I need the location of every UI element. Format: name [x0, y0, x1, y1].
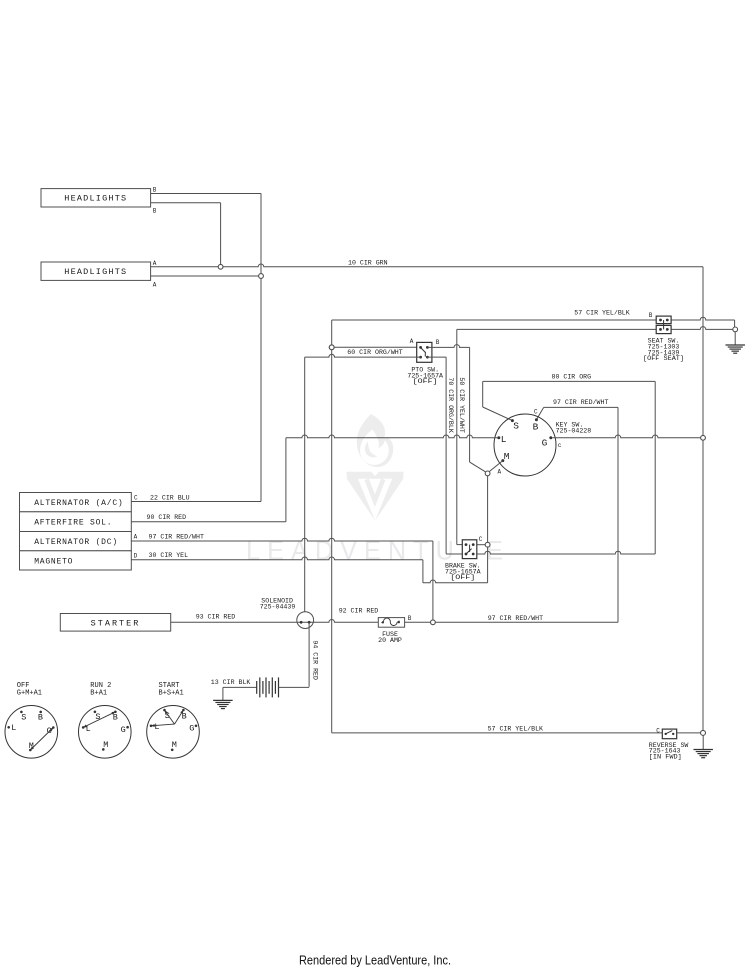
svg-text:B: B	[153, 208, 157, 215]
brake pins	[465, 543, 468, 546]
wire PTO B out, hop over x456.8, to corner x469.6	[427, 345, 469, 348]
svg-text:B+S+A1: B+S+A1	[159, 690, 184, 698]
svg-text:OFF: OFF	[17, 682, 30, 690]
key terminal M	[501, 459, 504, 462]
svg-text:725-04439: 725-04439	[260, 604, 296, 611]
key terminal S	[511, 419, 514, 422]
PTO switch 725-1657A box	[417, 342, 432, 362]
svg-text:A: A	[153, 260, 157, 267]
brake switch 725-1657A box	[462, 540, 477, 559]
svg-text:13 CIR BLK: 13 CIR BLK	[211, 679, 251, 686]
svg-text:20 AMP: 20 AMP	[378, 637, 402, 644]
wire 57 CIR YEL/BLK from vertical x331.7 to seat switch	[332, 319, 657, 321]
svg-text:A: A	[153, 282, 157, 289]
svg-text:c: c	[558, 442, 562, 449]
wire magneto run to key M junction vertical, hop over x432.9	[423, 580, 488, 583]
watermark LeadVenture logo V emblem	[347, 472, 378, 521]
svg-text:B+A1: B+A1	[90, 690, 107, 698]
diagonal into key M junction	[470, 462, 486, 472]
wire 97 CIR RED/WHT (key B)	[544, 406, 618, 408]
svg-text:L: L	[11, 723, 16, 733]
wire vertical x618 from 97 wire down to fuse output wire	[617, 407, 619, 622]
wire magneto corner down	[422, 560, 424, 583]
label 94 CIR RED (vertical)	[311, 640, 318, 680]
key switch circle U1	[494, 414, 556, 476]
wire battery negative to ground	[223, 686, 257, 688]
wire 60 CIR ORG/WHT to PTO switch	[332, 346, 421, 348]
svg-text:G+M+A1: G+M+A1	[17, 690, 42, 698]
wire 97 CIR RED/WHT from alternator DC	[131, 538, 433, 541]
wire vertical x331.7: 57 wire down to reverse wire	[331, 320, 333, 733]
svg-text:C: C	[479, 536, 483, 543]
wire M junction down to brake junction	[487, 476, 489, 583]
PTO pins	[419, 346, 422, 349]
junction at (220.6,266.8)	[218, 264, 223, 269]
wire headlight1 pin B bottom, to vertical x220.6	[151, 202, 221, 204]
box ALTERNATOR (DC)	[20, 532, 132, 551]
box AFTERFIRE SOL.	[20, 512, 132, 532]
svg-text:L: L	[501, 434, 507, 445]
wire reverse switch to ground junction	[677, 732, 701, 734]
wire battery positive to solenoid vertical	[279, 686, 310, 688]
wire key L to left (to afterfire vertical)	[286, 435, 498, 438]
key terminal G	[549, 436, 552, 439]
svg-text:A: A	[134, 534, 138, 541]
svg-text:START: START	[159, 682, 180, 690]
svg-text:G: G	[121, 725, 126, 735]
svg-text:97 CIR RED/WHT: 97 CIR RED/WHT	[488, 615, 543, 622]
svg-text:50 CIR YEL/WHT: 50 CIR YEL/WHT	[458, 377, 465, 432]
svg-text:92 CIR RED: 92 CIR RED	[339, 608, 379, 615]
seat switch 725-1303 box top pole	[656, 316, 671, 324]
svg-text:B: B	[533, 422, 539, 433]
wire 10 CIR GRN: headlight2 A top across to right vertical	[151, 264, 703, 267]
headlight box 1 (top)	[41, 189, 151, 207]
junction at (261,276)	[259, 274, 264, 279]
wire fuse output to vertical x618	[405, 621, 618, 623]
svg-text:B: B	[436, 339, 440, 346]
box ALTERNATOR (A/C)	[20, 493, 132, 512]
reverse switch pins and lever	[665, 733, 667, 735]
svg-text:S: S	[513, 421, 519, 432]
svg-text:57 CIR YEL/BLK: 57 CIR YEL/BLK	[574, 310, 629, 317]
svg-text:[OFF]: [OFF]	[413, 378, 438, 385]
wire into brake top-left pin	[457, 544, 466, 546]
reverse switch 725-1643 box	[662, 729, 676, 739]
headlight box 2 (bottom)	[41, 262, 151, 280]
fuse element	[382, 618, 400, 625]
junction circle (reverse ground)	[701, 730, 706, 735]
svg-text:Rendered by LeadVenture, Inc.: Rendered by LeadVenture, Inc.	[299, 954, 451, 968]
key terminal L	[497, 436, 500, 439]
svg-text:70 CIR ORG/BLK: 70 CIR ORG/BLK	[447, 377, 454, 432]
wire key G to right junction	[552, 435, 703, 438]
svg-text:S: S	[21, 713, 26, 723]
wire brake top-right pin to junction circle	[473, 544, 485, 546]
svg-text:725-04228: 725-04228	[556, 427, 592, 434]
svg-text:97 CIR RED/WHT: 97 CIR RED/WHT	[149, 534, 204, 541]
seat switch ground junction circle	[733, 327, 738, 332]
svg-text:[OFF]: [OFF]	[450, 574, 475, 581]
label 50 CIR YEL/WHT (vertical)	[458, 377, 465, 432]
svg-text:B: B	[113, 713, 118, 723]
svg-text:C: C	[534, 408, 538, 415]
junction circle below key M	[485, 471, 490, 476]
svg-text:B: B	[408, 615, 412, 622]
wire 22 CIR BLU	[131, 501, 261, 503]
svg-text:10 CIR GRN: 10 CIR GRN	[348, 260, 388, 267]
ground (seat switch)	[734, 332, 736, 345]
watermark LeadVenture logo flame	[347, 414, 404, 521]
svg-text:[OFF SEAT]: [OFF SEAT]	[643, 355, 684, 362]
svg-text:D: D	[134, 552, 138, 559]
label 70 CIR ORG/BLK (vertical)	[447, 377, 454, 432]
wire 57 CIR YEL/BLK bottom run	[332, 732, 663, 734]
wire headlight1 pin B top, to vertical x261	[151, 193, 261, 195]
wire 90 CIR RED	[131, 521, 286, 523]
diagonal key M to junction	[489, 461, 503, 472]
svg-text:80 CIR ORG: 80 CIR ORG	[552, 373, 592, 380]
key terminal B	[535, 418, 538, 421]
seat switch box bottom pole	[656, 325, 671, 333]
svg-text:A: A	[410, 338, 414, 345]
svg-text:ALTERNATOR (DC): ALTERNATOR (DC)	[34, 538, 118, 547]
svg-text:94 CIR RED: 94 CIR RED	[311, 640, 318, 680]
svg-text:[IN FWD]: [IN FWD]	[649, 754, 682, 761]
svg-text:30 CIR YEL: 30 CIR YEL	[149, 552, 189, 559]
fuse F1 box	[378, 618, 404, 628]
svg-text:L: L	[154, 722, 159, 732]
wire vertical x655.2 from 80 CIR ORG down to brake wire	[654, 381, 656, 554]
arrowheads on key position lines	[30, 746, 34, 750]
wire vertical 70 CIR ORG/BLK x446.1 down to brake switch	[445, 357, 447, 554]
svg-text:93 CIR RED: 93 CIR RED	[196, 613, 236, 620]
svg-text:B: B	[38, 713, 43, 723]
svg-text:HEADLIGHTS: HEADLIGHTS	[64, 194, 127, 204]
svg-text:G: G	[189, 723, 194, 733]
svg-text:97 CIR RED/WHT: 97 CIR RED/WHT	[553, 399, 608, 406]
solenoid internal wire and pins	[297, 621, 314, 623]
wire seat switch bottom right to ground junction	[671, 327, 733, 330]
battery B1	[256, 681, 258, 694]
box MAGNETO	[20, 551, 132, 570]
wire PTO bottom-left from corner x304.7, hop over x331.7	[305, 354, 421, 357]
junction circle at fuse output	[431, 620, 436, 625]
seat switch pins	[659, 319, 662, 322]
wire headlight2 A bottom to junction at x261	[151, 275, 261, 277]
svg-text:AFTERFIRE SOL.: AFTERFIRE SOL.	[34, 519, 112, 528]
svg-text:C: C	[656, 727, 660, 734]
svg-text:B: B	[153, 187, 157, 194]
solenoid circle	[297, 612, 314, 629]
wire brake bottom-right to vertical x655.2	[473, 551, 655, 554]
wire seat bottom from vertical x456.8 to seat switch	[457, 328, 656, 330]
svg-text:57 CIR YEL/BLK: 57 CIR YEL/BLK	[488, 725, 543, 732]
wire 80 CIR ORG	[483, 380, 656, 382]
svg-text:G: G	[542, 437, 548, 448]
wire PTO bottom-right to vertical x446.1	[427, 356, 446, 358]
diagonal to key B terminal	[536, 407, 543, 419]
wire into brake bottom-left pin	[446, 553, 466, 555]
svg-text:90 CIR RED: 90 CIR RED	[147, 514, 187, 521]
svg-text:A: A	[498, 468, 502, 475]
wire vertical from headlight1 B bottom down to junction	[220, 203, 222, 267]
svg-text:60 CIR ORG/WHT: 60 CIR ORG/WHT	[347, 349, 402, 356]
PTO lever	[421, 348, 426, 353]
junction circle on right vertical	[701, 435, 706, 440]
svg-text:RUN 2: RUN 2	[90, 682, 111, 690]
wire vertical x261: headlight1-B-top down to 22 CIR BLU	[260, 194, 262, 502]
svg-text:HEADLIGHTS: HEADLIGHTS	[64, 267, 127, 277]
svg-text:STARTER: STARTER	[91, 618, 141, 628]
svg-text:MAGNETO: MAGNETO	[34, 558, 73, 567]
svg-text:ALTERNATOR (A/C): ALTERNATOR (A/C)	[34, 499, 123, 508]
wire vertical x285.9 up to key L wire	[285, 438, 287, 522]
wire seat switch top right to ground corner	[671, 317, 735, 320]
ground (battery)	[213, 699, 233, 701]
wire vertical 94 CIR RED solenoid to battery	[308, 622, 310, 687]
svg-text:B: B	[649, 312, 653, 319]
svg-text:C: C	[134, 495, 138, 502]
svg-text:22 CIR BLU: 22 CIR BLU	[150, 494, 190, 501]
wire vertical x432.9 down to fuse junction	[432, 541, 434, 622]
brake link and lever	[469, 545, 471, 552]
wire 93 CIR RED starter to solenoid	[171, 621, 297, 623]
seat switch link	[663, 320, 665, 329]
svg-text:M: M	[504, 451, 510, 462]
STARTER box	[60, 614, 170, 632]
diagonal 80 CIR ORG to key S terminal	[483, 407, 513, 421]
wire vertical x469.6 from PTO B wire down	[469, 347, 471, 462]
wire vertical 50 CIR YEL/WHT x456.8 down to brake switch	[456, 329, 458, 544]
wire 92 CIR RED solenoid to fuse, hop over x331.7	[314, 620, 379, 623]
ground (reverse switch)	[702, 736, 704, 750]
wire vertical x703 right side: 10 CIR GRN down to reverse switch	[702, 267, 704, 731]
redraw junction circle over vertical	[329, 345, 334, 350]
junction circle at brake C	[485, 542, 490, 547]
wire vertical x304.7 from PTO wire down to solenoid	[304, 357, 306, 612]
wire 30 CIR YEL from magneto	[131, 557, 423, 560]
